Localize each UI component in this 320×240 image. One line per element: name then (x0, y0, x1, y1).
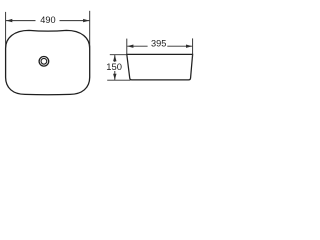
svg-text:490: 490 (40, 15, 55, 25)
dim 395 left arrowhead (127, 45, 133, 48)
dim 490 left extension line (5, 12, 7, 48)
dim 395 line right segment (167, 45, 192, 47)
dim 395 right arrowhead (186, 45, 192, 48)
dim 395 left extension line (126, 39, 128, 55)
dim 490 right extension line (89, 11, 91, 48)
side view outline (127, 54, 193, 80)
svg-text:150: 150 (106, 61, 122, 72)
drain inner circle (41, 58, 47, 64)
dim 490 left arrowhead (6, 19, 12, 22)
dim 490 line left segment (6, 20, 36, 22)
dim 395 right extension line (192, 38, 194, 57)
dim 150 line bottom segment (114, 71, 116, 80)
svg-text:395: 395 (151, 39, 166, 49)
basin top-view outline (6, 30, 90, 94)
drain outer circle (39, 57, 49, 67)
dim 150 line top segment (114, 55, 116, 62)
dim 150 top extension line (110, 54, 127, 56)
dim 150 bottom arrowhead (113, 74, 116, 80)
dim 490 line right segment (60, 20, 90, 22)
dim 490 right arrowhead (83, 19, 89, 22)
dim 150 top arrowhead (113, 55, 116, 61)
dim 395 line left segment (127, 45, 147, 47)
dim 150 bottom extension line (107, 79, 130, 81)
